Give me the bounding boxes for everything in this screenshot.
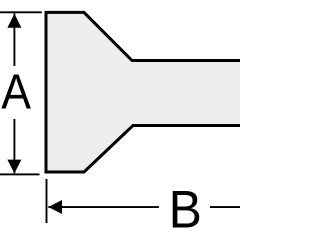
dimension line B left segment (48, 206, 159, 208)
arrowhead B left (48, 200, 62, 214)
arrowhead A up (7, 14, 21, 28)
dimension line B right segment (210, 206, 242, 208)
svg-text:A: A (1, 63, 31, 119)
dimension line A upper segment (13, 14, 15, 67)
extension line top (dim A) (0, 11, 42, 13)
part outline (flanged plug cross-section) (46, 12, 246, 172)
arrowhead A down (7, 160, 21, 174)
svg-text:B: B (169, 180, 202, 238)
extension line bottom (dim A) (0, 173, 40, 175)
extension line left (dim B) (46, 179, 48, 223)
dimension line A lower segment (13, 119, 15, 173)
